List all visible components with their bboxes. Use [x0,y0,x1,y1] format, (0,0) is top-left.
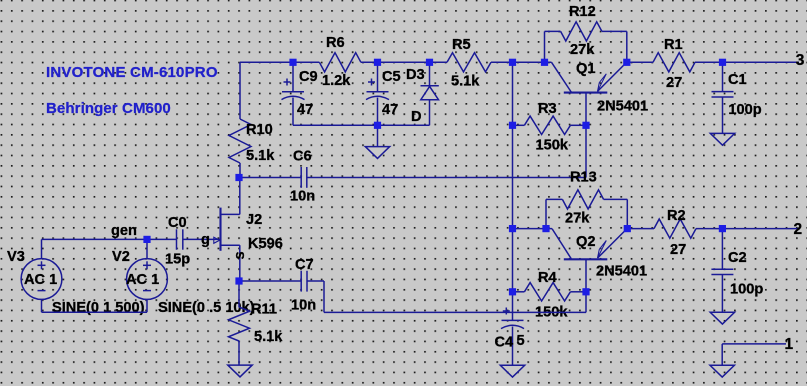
wire to port 3 [723,61,800,63]
svg-text:R6: R6 [326,35,345,51]
svg-text:5.1k: 5.1k [254,329,283,345]
svg-text:V3: V3 [7,249,25,265]
svg-text:1.2k: 1.2k [322,73,351,89]
svg-text:Q1: Q1 [576,61,595,77]
wire V2 top to gen node [146,239,148,258]
capacitor C4 polarized [512,292,514,321]
svg-text:R1: R1 [664,37,683,53]
node R10 C6 J2 drain [235,174,242,181]
svg-text:47: 47 [382,102,398,118]
wire C7 to C4 and Q2 base [324,311,586,313]
ground under C4 [500,365,524,377]
ground at port 1 [710,365,734,377]
svg-text:2N5401: 2N5401 [596,264,647,280]
svg-text:2: 2 [794,221,803,238]
capacitor C5 polarized [377,62,379,92]
ground under C5 [377,125,379,146]
svg-text:5.1k: 5.1k [451,74,480,90]
svg-text:150k: 150k [536,137,569,153]
svg-text:V2: V2 [112,249,130,265]
resistor R2 [627,228,654,230]
svg-text:AC 1: AC 1 [24,272,57,288]
svg-text:3: 3 [796,52,805,69]
wire R6 to R5 [361,61,447,63]
resistor R10 [229,119,251,163]
svg-text:Behringer CM600: Behringer CM600 [46,100,171,117]
svg-text:10n: 10n [291,298,316,314]
node C5 bottom ground rail [374,122,381,129]
resistor R6 [319,53,361,72]
svg-text:C1: C1 [728,72,747,88]
node R4 left C4 [509,288,516,295]
resistor R12 [544,31,546,62]
svg-text:R5: R5 [452,37,471,53]
node C2 tap [719,225,726,232]
wire left drop to R10 [239,62,241,119]
svg-text:AC 1: AC 1 [126,272,159,288]
wire gen row [42,238,177,240]
wire main vertical from R5 node down [512,62,514,291]
svg-text:R3: R3 [538,101,557,117]
voltage source V3 [21,259,62,300]
svg-text:R11: R11 [251,302,277,318]
svg-text:100p: 100p [730,282,763,298]
svg-text:C0: C0 [168,215,187,231]
svg-text:gen: gen [111,223,137,239]
capacitor C7 [239,280,301,282]
wire Q2 base to C7 rail [585,292,587,313]
svg-text:C9: C9 [299,69,318,85]
svg-text:C7: C7 [295,257,314,273]
capacitor C9 polarized [292,62,294,92]
ground under C1 [710,133,734,145]
svg-text:5.1k: 5.1k [246,148,275,164]
svg-text:1: 1 [785,336,794,353]
node Q2 base R4 right [582,288,589,295]
svg-text:5: 5 [517,333,525,349]
resistor R1 [627,61,653,63]
svg-text:K596: K596 [248,236,283,252]
svg-text:s: s [232,251,248,259]
wire source bottoms [41,299,43,312]
diode D3 [429,62,431,85]
svg-text:C6: C6 [293,149,312,165]
node R12 left [541,59,548,66]
svg-text:10n: 10n [290,189,315,205]
svg-text:27: 27 [670,242,686,258]
svg-text:INVOTONE CM-610PRO: INVOTONE CM-610PRO [46,64,218,81]
capacitor C6 [239,177,301,179]
svg-text:D: D [411,109,422,125]
svg-text:27k: 27k [565,211,590,227]
capacitor C2 [721,229,723,270]
svg-text:100p: 100p [728,102,761,118]
svg-text:Q2: Q2 [576,234,595,250]
wire port 1 [722,343,786,345]
resistor R5 [447,53,491,72]
node R3 left [509,122,516,129]
svg-text:g: g [201,232,210,248]
capacitor C0 [176,229,178,249]
svg-text:R2: R2 [667,208,686,224]
wire Q2 collector row [513,228,553,230]
svg-text:27: 27 [666,75,682,91]
svg-text:SINE(0 1 500): SINE(0 1 500) [52,300,145,316]
svg-text:J2: J2 [246,212,262,228]
svg-text:C4: C4 [495,335,515,351]
node at D3 top [426,59,433,66]
wire top rail from corner to R6 [240,61,319,63]
svg-text:47: 47 [297,102,313,118]
wire to port 2 [722,228,800,230]
wire R5 to Q1 collector stub [491,61,552,63]
node J2 source C7 R11 [235,277,242,284]
ground under R11 [228,365,252,377]
svg-text:D3: D3 [406,67,425,83]
node R5-R3 junction [509,59,516,66]
svg-text:R12: R12 [569,4,596,20]
resistor R4 [513,291,525,293]
svg-text:27k: 27k [570,42,595,58]
capacitor C1 [722,62,724,91]
node Q2 collector row left [509,225,516,232]
svg-text:15p: 15p [165,252,190,268]
node at C9 top [289,59,296,66]
svg-text:R13: R13 [570,170,597,186]
node Q1 emitter R12 right [623,59,630,66]
wire cap bottom rail [293,124,430,126]
svg-text:C5: C5 [382,69,401,85]
transistor Q2 2N5401 [552,229,571,259]
transistor Q1 2N5401 [552,62,572,92]
node gen [143,236,150,243]
node Q1 base R3 right [582,122,589,129]
node C1 tap [719,59,726,66]
voltage source V2 [127,259,168,300]
svg-text:R10: R10 [246,122,273,138]
node at C5 top [374,59,381,66]
jfet J2 K596 [219,208,221,251]
svg-text:2N5401: 2N5401 [597,99,648,115]
wire V3 top [41,239,43,258]
ground under C2 [710,312,734,324]
node Q2 emitter R13 right [624,225,631,232]
resistor R11 [238,281,240,307]
svg-text:R4: R4 [538,270,558,286]
resistor R13 [545,199,547,228]
svg-text:C2: C2 [728,250,747,266]
node R13 left [542,225,549,232]
resistor R3 [513,124,525,126]
